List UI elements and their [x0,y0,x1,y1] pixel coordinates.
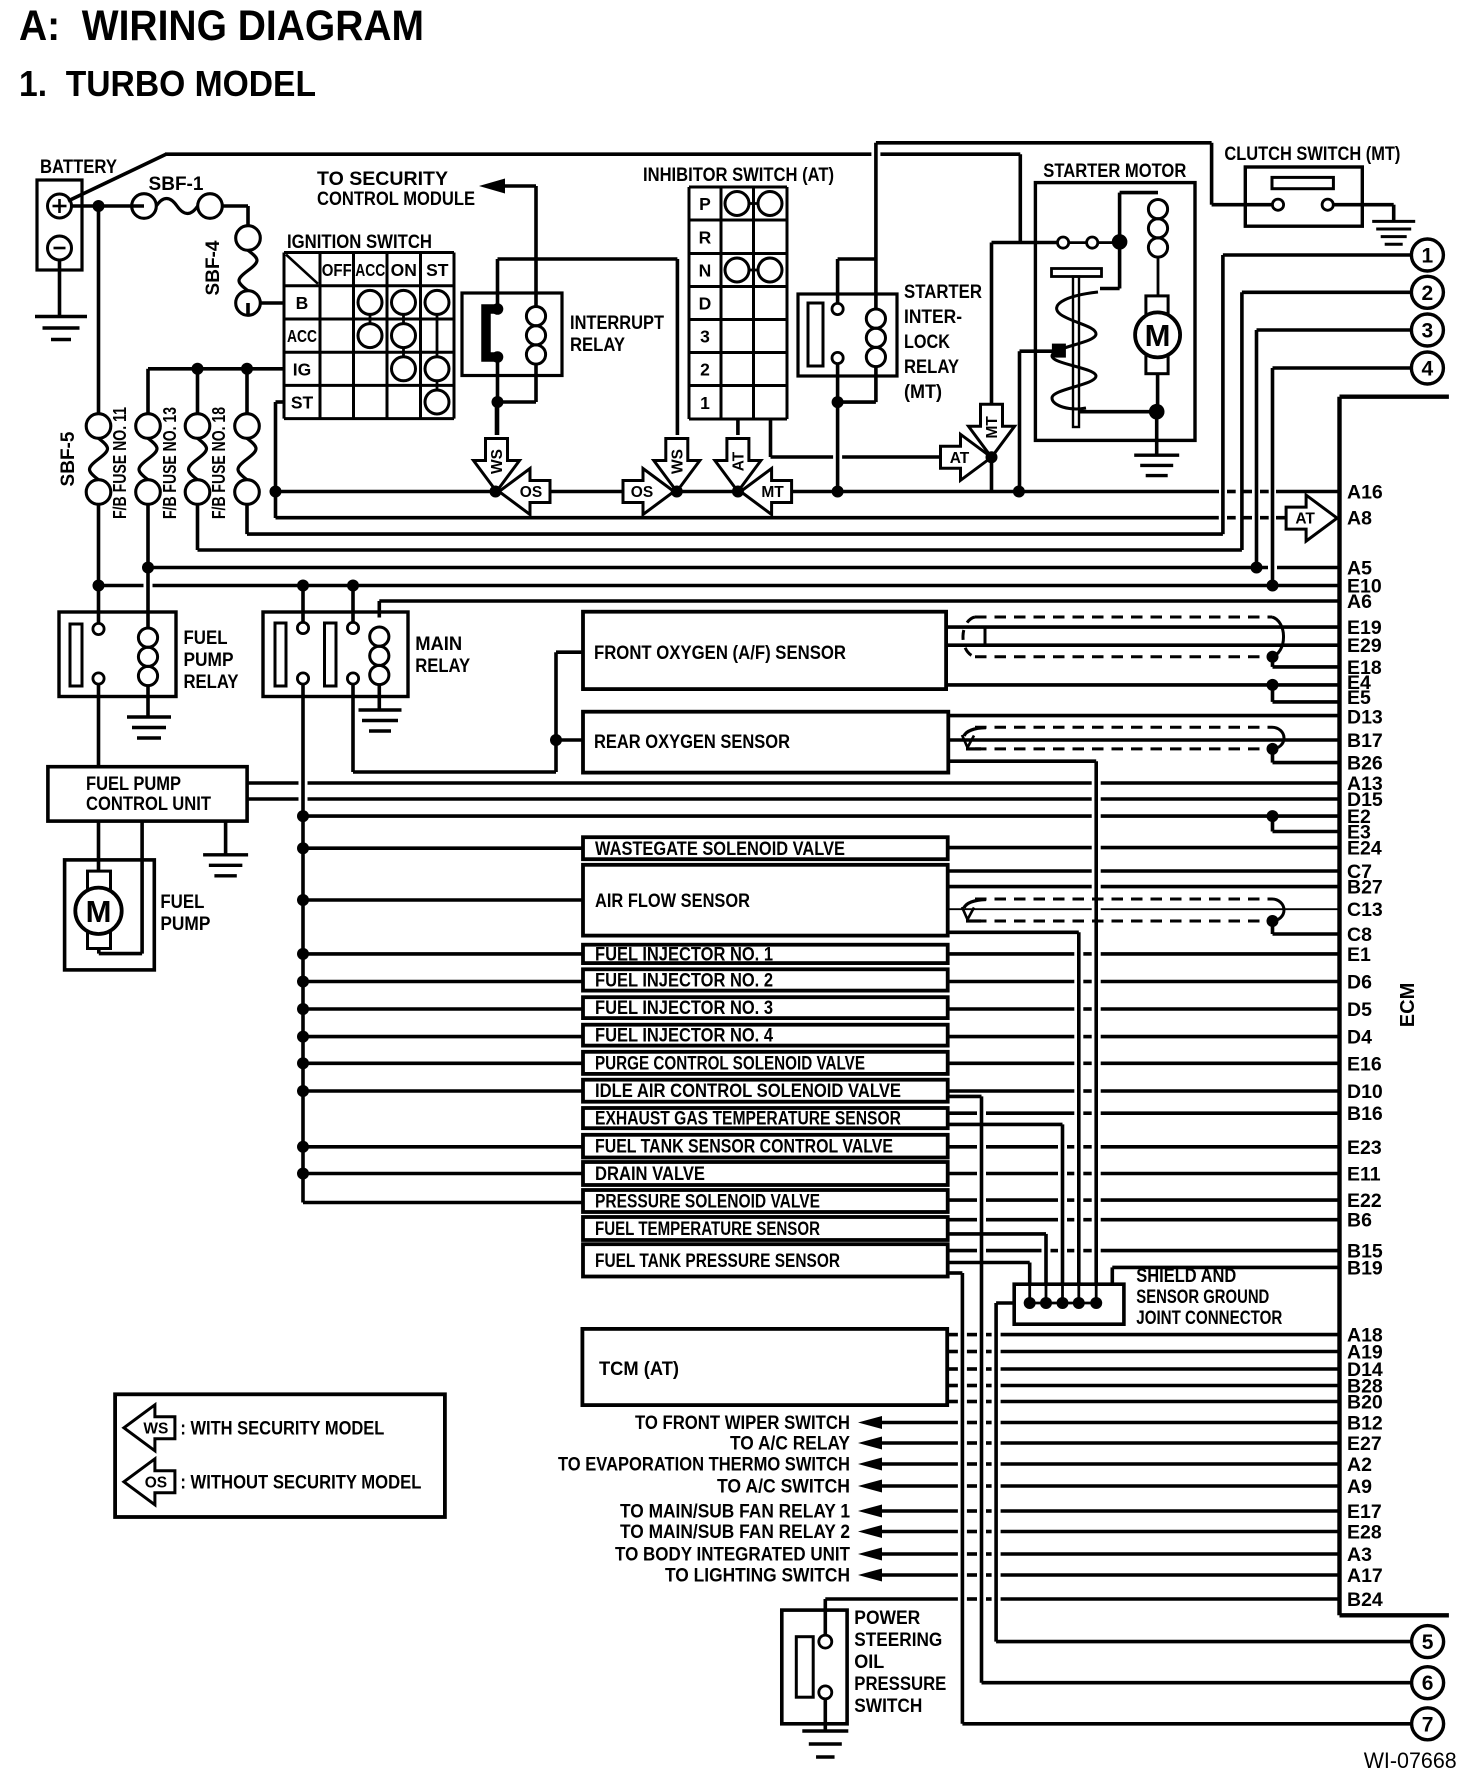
arrow OS pair1 [499,469,550,515]
svg-text:B12: B12 [1347,1413,1383,1435]
svg-text:B26: B26 [1347,753,1383,775]
svg-text:A2: A2 [1347,1454,1372,1476]
ground starter motor [1134,454,1179,457]
wire clutch switch to ground [1333,203,1393,207]
svg-text:D6: D6 [1347,972,1372,994]
node front shield drain to E18 [1267,651,1279,663]
svg-text:TO MAIN/SUB FAN RELAY 2: TO MAIN/SUB FAN RELAY 2 [620,1522,850,1543]
wire exhaust gas to B16 [948,1111,977,1115]
svg-text:D10: D10 [1347,1081,1383,1103]
wire fuel pump relay to control unit [97,684,101,767]
svg-text:AT: AT [1295,511,1315,528]
svg-text:REAR OXYGEN SENSOR: REAR OXYGEN SENSOR [594,732,790,753]
starter solenoid contact arm [1118,242,1122,289]
svg-text:: WITHOUT SECURITY MODEL: : WITHOUT SECURITY MODEL [180,1473,421,1494]
svg-text:WS: WS [489,449,506,474]
wire inhibitor col2 to AT arrow [736,419,740,435]
starter motor switch terminals [1069,241,1087,244]
wire interrupt relay outputs join [496,363,500,436]
legend arrow OS [124,1459,175,1505]
wire E10 net from SBF-5 [99,584,144,588]
arrow TO MAIN/SUB FAN RELAY 2 [858,1525,882,1538]
wire TO A/C SWITCH to ECM [882,1484,958,1488]
svg-text:FUEL PUMP: FUEL PUMP [86,774,181,795]
svg-text:OS: OS [145,1474,167,1491]
svg-text:: WITH SECURITY MODEL: : WITH SECURITY MODEL [180,1419,384,1440]
svg-text:A3: A3 [1347,1544,1372,1566]
ignition switch contacts row ACC [358,324,382,348]
svg-text:PUMP: PUMP [160,914,210,935]
svg-text:SBF-1: SBF-1 [149,174,204,195]
svg-text:A9: A9 [1347,1476,1372,1498]
svg-text:PRESSURE: PRESSURE [854,1674,946,1695]
svg-text:4: 4 [1422,358,1434,381]
svg-text:RELAY: RELAY [184,672,239,693]
wire battery minus to ground [58,260,62,317]
wire E2 net from main relay branch [303,814,1092,818]
wire purge control solenoid valve to ECM [948,1062,1075,1066]
wire power steering to B24 [825,1597,958,1601]
wire main relay output to oxygen sensors [351,684,355,772]
legend box [115,1394,445,1517]
svg-text:A16: A16 [1347,482,1383,504]
TCM AT box [582,1329,947,1405]
wire fuel temperature to joint connector [948,1232,1046,1236]
wire fuel injector 3 left [303,1007,583,1011]
wire fuel injector 3 to ECM [948,1007,1075,1011]
wire rear oxygen ground to joint connector [948,759,1096,763]
svg-text:ON: ON [391,260,417,280]
svg-text:FUEL INJECTOR NO. 3: FUEL INJECTOR NO. 3 [595,998,773,1019]
svg-text:P: P [699,194,711,214]
wire fuel tank pressure to joint connector [948,1261,1030,1265]
wire joint connector pins down [1028,1284,1031,1303]
exhaust gas temperature sensor box [583,1108,948,1128]
wire interlock upper terminal [836,259,840,303]
starter motor armature [1146,296,1168,374]
wire TO A/C RELAY to ECM [882,1441,958,1445]
arrow OS pair2 [623,469,674,515]
wire air flow to C7 [948,869,1092,873]
main relay coil [370,627,389,646]
arrow TO FRONT WIPER SWITCH [858,1416,882,1429]
wire TO FRONT WIPER SWITCH to ECM [882,1421,958,1425]
svg-text:AT: AT [950,450,970,467]
svg-text:B27: B27 [1347,877,1383,899]
svg-text:OS: OS [631,484,653,501]
wire control unit to fuel pump [97,821,101,871]
svg-text:MAIN: MAIN [415,634,462,655]
fuel pump relay K3 [59,612,176,697]
wire NO.18 to circled 1 [245,504,249,534]
svg-text:ACC: ACC [355,260,385,280]
svg-text:OFF: OFF [322,260,352,280]
svg-text:SWITCH: SWITCH [854,1696,922,1717]
wire fuel tank pressure to B15 [948,1249,977,1253]
svg-text:C13: C13 [1347,899,1383,921]
wire E5 branch [1271,685,1275,702]
svg-text:3: 3 [1422,320,1434,343]
wire fuel injector 2 to ECM [948,980,1075,984]
svg-text:RELAY: RELAY [904,357,959,378]
wire ST to A8 net [276,516,1219,520]
wire TCM to B20 [947,1400,958,1404]
svg-text:PUMP: PUMP [184,650,234,671]
fuel temperature sensor box [583,1217,948,1240]
interrupt relay K1 [462,293,562,376]
svg-text:B24: B24 [1347,1589,1383,1611]
svg-text:D13: D13 [1347,707,1383,729]
svg-text:SBF-5: SBF-5 [58,431,79,486]
svg-text:FUEL: FUEL [184,628,228,649]
wire air flow left [303,898,583,902]
wire joint connector to circled 5 [996,1301,1014,1305]
svg-text:TO FRONT WIPER SWITCH: TO FRONT WIPER SWITCH [635,1413,850,1434]
wire interlock coil bottom join [874,367,878,402]
wire fuel pump control unit to A13 [247,781,298,785]
ECM connector outline [1337,397,1341,1616]
wire idle air to D10 [948,1089,1075,1093]
svg-text:INTERRUPT: INTERRUPT [570,313,664,334]
wire front oxygen to E29 [946,643,1339,647]
wire rear oxygen to B17 [948,738,1339,742]
svg-text:AIR FLOW SENSOR: AIR FLOW SENSOR [595,891,750,912]
svg-text:ECM: ECM [1397,983,1419,1027]
wire rear oxygen to D13 [948,714,1339,718]
wire fuel temperature to B6 [948,1218,977,1222]
svg-text:M: M [1145,318,1171,353]
wire fuel injector 1 to ECM [948,952,1075,956]
wire TO EVAPORATION THERMO SWITCH to ECM [882,1462,958,1466]
wastegate solenoid valve box [583,837,948,859]
svg-text:1. TURBO MODEL: 1. TURBO MODEL [19,63,316,104]
svg-text:CONTROL MODULE: CONTROL MODULE [317,189,475,210]
svg-text:IGNITION SWITCH: IGNITION SWITCH [287,232,432,253]
svg-text:TO A/C SWITCH: TO A/C SWITCH [717,1477,850,1498]
drain valve box [583,1162,948,1185]
fuel tank pressure sensor box [583,1244,948,1276]
wire fuel pump control unit ground [224,821,228,855]
wire MT AT junction down to A16 net [990,457,994,491]
wire E3 branch [1271,816,1275,831]
wire wastegate left [303,846,583,850]
starter interlock relay contact [808,303,823,366]
svg-text:FRONT OXYGEN (A/F) SENSOR: FRONT OXYGEN (A/F) SENSOR [594,643,846,664]
wire SBF-1 to SBF-4 [222,204,248,208]
svg-text:A17: A17 [1347,1565,1383,1587]
fuel injector 1 box [583,945,948,963]
arrow TO BODY INTEGRATED UNIT [858,1548,882,1561]
svg-text:B20: B20 [1347,1392,1383,1414]
arrow to security control module [479,179,505,194]
wire main relay coil to ground [377,685,381,710]
wire TO MAIN/SUB FAN RELAY 2 to ECM [882,1530,958,1534]
svg-text:FUEL: FUEL [160,892,204,913]
arrow WS pair2 [654,439,700,492]
interrupt relay coil [526,307,545,326]
fuel injector 4 box [583,1025,948,1046]
svg-text:WASTEGATE SOLENOID VALVE: WASTEGATE SOLENOID VALVE [595,839,845,860]
wire inhibitor col3 to AT arrow right [769,419,773,457]
svg-text:B: B [296,293,309,313]
wire top rail to starter motor [165,152,871,156]
wire to circled 6 [982,1681,1412,1685]
svg-text:E23: E23 [1347,1137,1382,1159]
svg-text:E1: E1 [1347,944,1371,966]
node air flow shield drain to C8 [1267,915,1279,927]
wire power steering to ground [823,1699,827,1731]
svg-text:IG: IG [293,359,311,379]
wire starter plunger to A16 net [1020,349,1053,353]
svg-text:B19: B19 [1347,1257,1383,1279]
wire fuel pump relay coil to ground [146,686,150,717]
wire battery diagonal to top rail [68,154,166,201]
fuel injector 3 box [583,997,948,1018]
wire battery down to SBF-5 [97,206,101,414]
wire NO.13 to circled 2 [196,504,200,550]
wire pressure solenoid left [303,1201,583,1205]
svg-text:STARTER: STARTER [904,282,982,303]
fuel pump control unit U2 [48,767,247,821]
arrow TO LIGHTING SWITCH [858,1569,882,1582]
svg-text:TO BODY INTEGRATED UNIT: TO BODY INTEGRATED UNIT [615,1545,850,1566]
wire TCM to D14 [947,1367,958,1371]
svg-text:FUEL TEMPERATURE SENSOR: FUEL TEMPERATURE SENSOR [595,1219,820,1240]
svg-text:E24: E24 [1347,838,1382,860]
svg-text:1: 1 [700,393,710,413]
node circled 7 [1412,1708,1444,1740]
arrow AT starter [941,434,992,480]
wire wastegate to E24 [948,846,1092,850]
svg-text:WI-07668: WI-07668 [1364,1748,1457,1773]
svg-text:RELAY: RELAY [415,656,470,677]
svg-text:STARTER MOTOR: STARTER MOTOR [1043,161,1186,182]
wire TCM to A18 [947,1333,958,1337]
ignition switch contact row ST [425,390,449,414]
svg-text:2: 2 [1422,282,1434,305]
svg-text:B17: B17 [1347,730,1383,752]
ignition switch contact links [369,314,372,323]
wire idle air to circled 6 [948,1095,982,1099]
svg-text:SBF-4: SBF-4 [203,240,224,295]
wire interlock coil spine to top rail [874,143,878,310]
wire air flow to C13 [948,908,1092,910]
svg-text:EXHAUST GAS TEMPERATURE SENSOR: EXHAUST GAS TEMPERATURE SENSOR [595,1109,901,1130]
svg-text:ST: ST [291,393,314,413]
wire NO.11 to fuel pump relay coil and A5 net [146,504,150,627]
wire TO LIGHTING SWITCH to ECM [882,1573,958,1577]
wire front oxygen to E19 [946,625,1339,629]
starter interlock relay coil [866,309,885,328]
starter return spring [1052,292,1098,409]
svg-text:FUEL INJECTOR NO. 4: FUEL INJECTOR NO. 4 [595,1026,773,1047]
arrow TO MAIN/SUB FAN RELAY 1 [858,1505,882,1518]
shield air flow sensor [975,898,1272,901]
svg-text:R: R [699,227,712,247]
ground battery [35,315,87,318]
svg-text:F/B FUSE NO. 18: F/B FUSE NO. 18 [209,407,229,519]
wire purge control solenoid valve left [303,1062,583,1066]
svg-text:STEERING: STEERING [854,1630,942,1651]
svg-text:D: D [699,294,712,314]
fuel pump relay contact [70,624,82,686]
svg-text:POWER: POWER [854,1608,920,1629]
node circled 3 [1411,314,1443,346]
svg-text:B16: B16 [1347,1103,1383,1125]
svg-text:A6: A6 [1347,591,1372,613]
wire fuel injector 2 left [303,980,583,984]
svg-text:B6: B6 [1347,1210,1372,1232]
wire pressure solenoid to E22 [948,1198,977,1202]
wire to circled 2 [1240,292,1244,550]
wire battery plus node [72,204,145,208]
starter plunger T bar [1052,269,1102,277]
svg-text:CLUTCH SWITCH (MT): CLUTCH SWITCH (MT) [1224,144,1400,165]
wire security module to interrupt relay coil [505,184,536,188]
air flow sensor box [583,865,948,936]
node circled 2 [1411,276,1443,308]
arrow WS pair1 [474,439,520,492]
wire to circled 7 [962,1722,1411,1726]
svg-text:WS: WS [669,449,686,474]
wire starter switch rail [992,241,1058,245]
svg-text:TO A/C RELAY: TO A/C RELAY [730,1434,850,1455]
svg-text:D4: D4 [1347,1027,1372,1049]
ground main relay [359,708,402,711]
wire TCM to B28 [947,1384,958,1388]
svg-text:JOINT CONNECTOR: JOINT CONNECTOR [1136,1308,1282,1329]
svg-text:1: 1 [1422,245,1434,268]
wire main relay feeds from E10 net [301,586,305,623]
node circled 6 [1412,1667,1444,1699]
wire interrupt to WS arrow pair1 [495,406,499,435]
wire fuel pump control unit to D15 [247,797,298,801]
main relay K4 [263,612,408,697]
svg-text:E27: E27 [1347,1433,1382,1455]
svg-text:ST: ST [426,260,449,280]
wire clutch switch left [1212,203,1273,207]
wire joint connector to B19 [1111,1267,1115,1284]
svg-text:E28: E28 [1347,1522,1382,1544]
legend arrow WS [124,1405,175,1451]
front oxygen A/F sensor box [583,612,946,689]
svg-text:OS: OS [520,484,542,501]
wire fuel injector 1 left [303,952,583,956]
svg-text:TO SECURITY: TO SECURITY [317,169,448,190]
ground clutch switch [1372,220,1415,223]
svg-text:5: 5 [1422,1631,1434,1654]
inhibitor switch contacts N row [725,258,749,282]
svg-text:2: 2 [700,360,710,380]
wire fuel tank sensor control left [303,1145,583,1149]
ground fuel pump relay [127,715,171,718]
svg-text:INTER-: INTER- [904,307,962,328]
svg-text:F/B FUSE NO. 11: F/B FUSE NO. 11 [110,407,130,519]
arrow MT starter [990,243,994,405]
arrow TO A/C SWITCH [858,1480,882,1493]
svg-text:7: 7 [1422,1713,1434,1736]
wire fuel tank sensor control to E23 [948,1145,977,1149]
arrow TO A/C RELAY [858,1437,882,1450]
fuel injector 2 box [583,969,948,990]
svg-text:AT: AT [730,451,747,471]
wire interrupt contact to WS/OS junction via top [496,259,500,304]
svg-text:TO LIGHTING SWITCH: TO LIGHTING SWITCH [665,1566,850,1587]
inhibitor switch SW2 table [688,187,691,419]
inhibitor switch contacts P row [725,192,749,216]
svg-text:E17: E17 [1347,1501,1382,1523]
svg-text:A8: A8 [1347,508,1372,530]
svg-text:(MT): (MT) [904,382,942,403]
wire main relay output to solenoid valves [301,684,305,1203]
svg-text:SENSOR GROUND: SENSOR GROUND [1136,1287,1269,1308]
svg-text:FUEL TANK PRESSURE SENSOR: FUEL TANK PRESSURE SENSOR [595,1251,840,1272]
ground power steering switch [802,1729,848,1732]
svg-text:6: 6 [1422,1672,1434,1695]
svg-text:3: 3 [700,327,710,347]
wire interlock lower terminal to ST net [836,364,840,492]
wire drain valve to E11 [948,1172,977,1176]
wire SBF-4 to ignition switch B [246,303,250,315]
starter interlock relay K2 [798,294,897,376]
shield and sensor ground joint connector [1014,1284,1124,1324]
wire starter motor to ground junction [1156,374,1160,412]
svg-text:LOCK: LOCK [904,332,950,353]
wire top rail interlock to clutch switch [876,141,1212,145]
svg-text:MT: MT [984,416,1001,439]
wire drain valve left [303,1172,583,1176]
wire SBF-5 to fuel pump relay and E10 net [97,504,101,623]
svg-text:IDLE AIR CONTROL SOLENOID VALV: IDLE AIR CONTROL SOLENOID VALVE [595,1081,901,1102]
svg-text:DRAIN VALVE: DRAIN VALVE [595,1164,705,1185]
arrow MT inhibitor [741,469,792,515]
svg-text:C8: C8 [1347,924,1372,946]
wire TO BODY INTEGRATED UNIT to ECM [882,1552,958,1556]
svg-text:M: M [86,894,112,929]
node circled 4 [1411,352,1443,384]
wire fuel injector 4 to ECM [948,1035,1075,1039]
starter spring junction [1052,344,1066,358]
wire idle air left [303,1089,583,1093]
node circled 5 [1412,1626,1444,1658]
wire TCM to A19 [947,1350,958,1354]
arrow AT inhibitor [715,439,761,492]
node rear shield drain to B26 [1267,743,1279,755]
svg-text:TO MAIN/SUB FAN RELAY 1: TO MAIN/SUB FAN RELAY 1 [620,1502,850,1523]
svg-text:FUEL TANK SENSOR CONTROL VALVE: FUEL TANK SENSOR CONTROL VALVE [595,1137,893,1158]
ignition switch contacts row IG [392,357,416,381]
svg-text:D5: D5 [1347,999,1372,1021]
shield front oxygen sensor [975,616,1272,619]
svg-text:FUEL INJECTOR NO. 2: FUEL INJECTOR NO. 2 [595,970,773,991]
wire exhaust gas to joint connector [948,1123,1063,1127]
ignition switch SW1 table [283,253,286,419]
shield rear oxygen sensor [975,726,1272,729]
wire to circled 5 [996,1640,1411,1644]
arrow TO EVAPORATION THERMO SWITCH [858,1458,882,1471]
arrow AT to pin A8 [1286,495,1337,541]
svg-text:TCM (AT): TCM (AT) [599,1359,679,1380]
starter solenoid coil [1118,193,1122,242]
svg-text:TO EVAPORATION THERMO SWITCH: TO EVAPORATION THERMO SWITCH [558,1455,850,1476]
wire ignition ST row down [276,400,285,404]
wire A6 net from main relay coil [379,599,1339,603]
fuel tank sensor control valve box [583,1135,948,1158]
svg-text:F/B FUSE NO. 13: F/B FUSE NO. 13 [160,407,180,519]
svg-text:E16: E16 [1347,1053,1382,1075]
wire ignition IG row to fuses [148,367,284,371]
interrupt relay contact [486,309,498,357]
